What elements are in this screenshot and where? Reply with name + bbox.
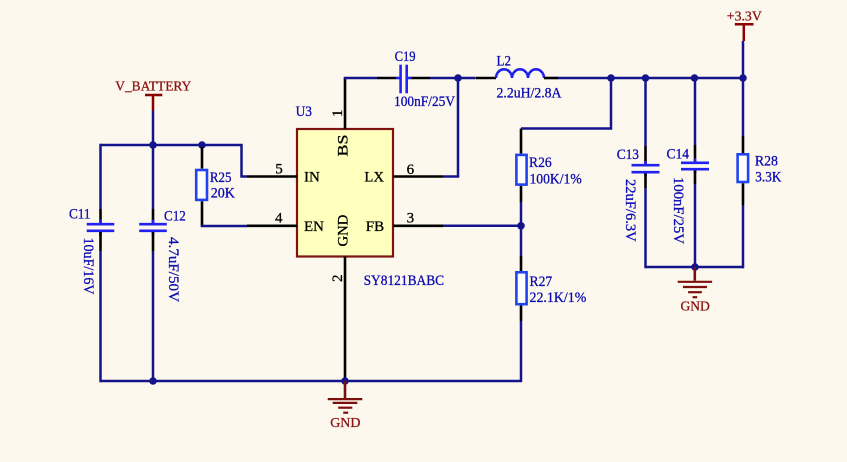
node R25 junction [198,141,206,149]
capacitor C12 [139,208,186,302]
node C14 junction [691,74,699,82]
wire top-left horizontal [101,145,248,177]
svg-text:L2: L2 [497,54,512,70]
resistor R25 [196,147,235,226]
svg-text:U3: U3 [296,104,312,120]
capacitor C19 [394,49,455,110]
pin 6 LX [393,162,443,178]
svg-text:4: 4 [275,211,283,227]
svg-text:5: 5 [275,162,283,178]
node L2 out junction [607,74,615,82]
svg-text:22uF/6.3V: 22uF/6.3V [622,179,638,242]
inductor L2 [475,54,561,102]
svg-text:100nF/25V: 100nF/25V [670,177,686,244]
wire V_BATTERY stem [152,111,155,146]
svg-text:R25: R25 [210,170,232,186]
wire +3.3V to rail [742,41,745,78]
ground (right) [678,267,712,315]
svg-text:C14: C14 [667,147,690,163]
resistor R28 [738,136,782,205]
svg-text:BS: BS [336,135,352,157]
wire R28 to gnd rail [742,205,745,268]
wire C13 to gnd rail [644,174,647,189]
pin 1 BS [330,78,346,129]
wire FB horizontal [443,225,521,228]
svg-text:C12: C12 [164,208,186,224]
svg-text:100nF/25V: 100nF/25V [394,94,455,110]
svg-text:GND: GND [681,300,710,315]
svg-text:10uF/16V: 10uF/16V [80,238,96,295]
node V_BATTERY junction [149,141,157,149]
pin 4 EN [247,211,297,227]
wire C14 drop [694,78,697,145]
svg-text:V_BATTERY: V_BATTERY [115,79,191,94]
pin 2 GND [330,257,346,382]
svg-text:3: 3 [407,211,415,227]
wire BS to C19 [344,77,377,80]
pin 5 IN [247,162,297,178]
svg-text:SY8121BABC: SY8121BABC [364,273,445,289]
node right gnd junction [691,263,699,271]
svg-text:R26: R26 [529,155,552,171]
resistor R27 [516,256,586,321]
svg-text:2.2uH/2.8A: 2.2uH/2.8A [497,86,562,102]
svg-text:GND: GND [330,416,360,431]
wire C12 to bottom rail [152,232,155,251]
svg-text:2: 2 [330,275,346,283]
svg-text:C19: C19 [395,49,416,65]
capacitor C11 [69,206,114,294]
svg-text:C13: C13 [617,147,639,163]
resistor R26 [516,129,581,203]
wire left rail lower (C11 to bottom rail) [99,232,102,251]
wire C19 right [412,77,431,80]
power symbol V_BATTERY [115,79,191,110]
wire C14 to gnd rail [694,171,697,185]
capacitor C13 [617,147,660,242]
svg-text:20K: 20K [211,185,235,201]
wire R26 to FB node [520,202,523,227]
IC U3 SY8121BABC [296,104,445,289]
wire feedback branch down-left [521,78,611,129]
svg-text:3.3K: 3.3K [755,169,781,185]
svg-text:4.7uF/50V: 4.7uF/50V [165,237,181,302]
wire C13 drop [644,78,647,146]
capacitor C14 [667,147,710,245]
wire FB node to R27 [520,226,523,256]
svg-text:R28: R28 [755,153,778,169]
svg-text:+3.3V: +3.3V [727,10,762,25]
svg-text:GND: GND [336,215,352,247]
wire output rail [558,77,743,80]
wire R25 to EN [201,225,247,228]
svg-text:100K/1%: 100K/1% [530,172,582,188]
svg-text:R27: R27 [530,274,553,290]
svg-text:IN: IN [304,170,320,186]
svg-text:EN: EN [304,219,324,235]
svg-text:FB: FB [366,219,384,235]
wire left rail upper (to C11) [99,144,102,209]
svg-text:22.1K/1%: 22.1K/1% [530,290,587,306]
power symbol +3.3V [727,10,762,42]
svg-text:LX: LX [364,170,384,186]
ground (bottom) [328,381,363,431]
svg-text:6: 6 [407,162,415,178]
node FB junction [517,222,525,230]
wire C12 drop [152,145,155,209]
node R28 junction [739,74,747,82]
wire right gnd rail [646,266,744,269]
pin 3 FB [393,211,443,227]
wire LX riser [443,78,458,177]
node GND junction [341,377,349,385]
node C13 junction [642,74,650,82]
node C12 bottom junction [149,377,157,385]
svg-text:1: 1 [330,110,346,118]
node LX/C19 junction [454,74,462,82]
svg-text:C11: C11 [69,206,91,222]
wire R28 drop [742,78,745,136]
wire R27 to bottom rail [101,321,522,381]
